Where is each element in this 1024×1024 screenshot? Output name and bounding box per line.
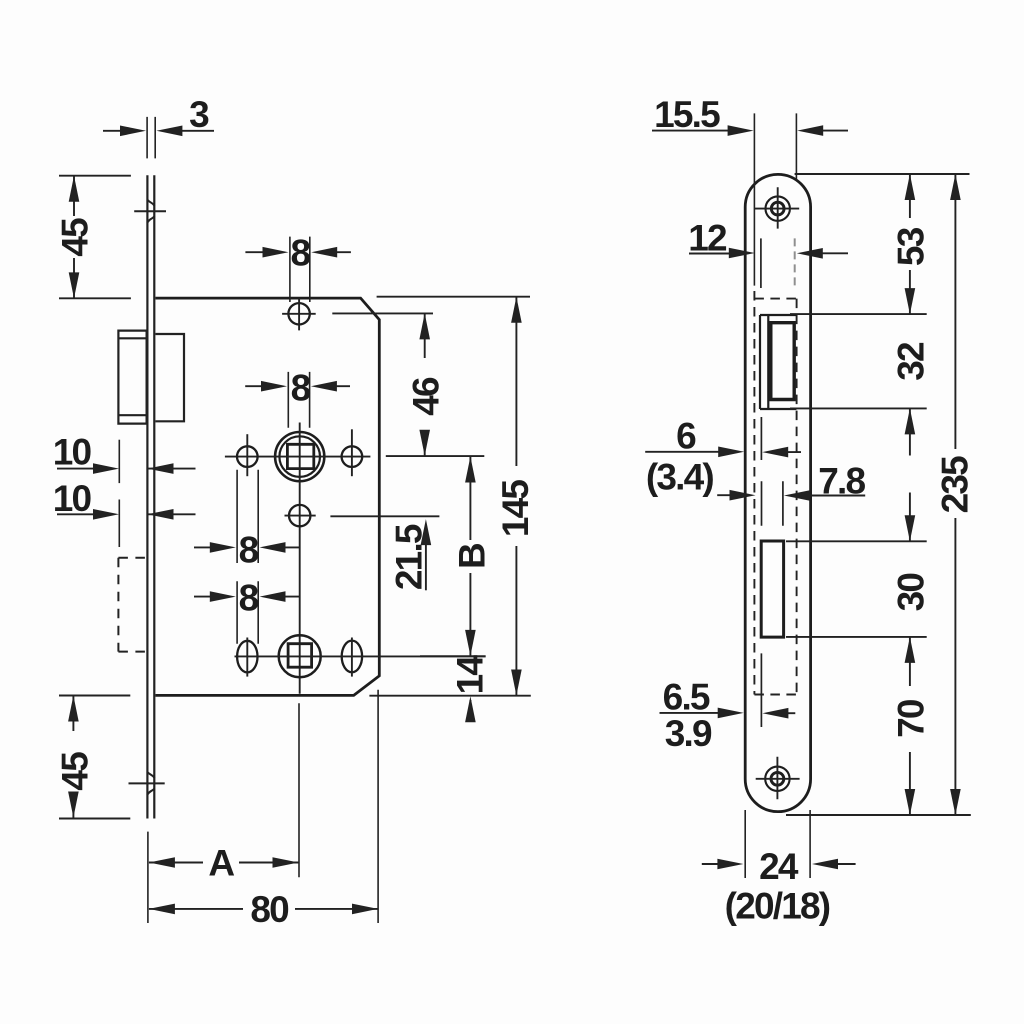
svg-text:3.9: 3.9 bbox=[665, 713, 712, 754]
dim 10 upper bbox=[53, 432, 196, 483]
hidden lock case (dashed) bbox=[754, 291, 796, 695]
dim 46 bbox=[332, 313, 484, 456]
faceplate (side view) bbox=[147, 175, 154, 818]
left hole bbox=[237, 434, 258, 476]
svg-text:6: 6 bbox=[676, 416, 696, 457]
faceplate break mark bottom bbox=[129, 772, 165, 795]
dim 24 bbox=[702, 810, 856, 887]
dim 70 bbox=[891, 637, 932, 815]
dim 53 bbox=[891, 174, 932, 314]
construction lines bbox=[754, 113, 796, 727]
svg-text:15.5: 15.5 bbox=[654, 94, 720, 135]
svg-text:3: 3 bbox=[189, 94, 209, 135]
dim 145 bbox=[369, 297, 536, 696]
svg-text:80: 80 bbox=[250, 889, 289, 930]
svg-text:8: 8 bbox=[291, 233, 311, 274]
dim 30 label bbox=[891, 573, 932, 612]
top screw hole bbox=[755, 187, 799, 228]
dim A bbox=[148, 703, 299, 923]
dim 15.5 bbox=[652, 94, 848, 136]
svg-text:(3.4): (3.4) bbox=[646, 457, 714, 498]
latch bolt body bbox=[156, 334, 185, 421]
svg-text:6.5: 6.5 bbox=[663, 677, 710, 718]
svg-text:10: 10 bbox=[53, 478, 92, 519]
lock case outline bbox=[156, 298, 380, 695]
svg-text:70: 70 bbox=[891, 699, 932, 738]
bottom screw hole bbox=[756, 757, 800, 799]
lower small hole bbox=[285, 505, 316, 526]
deadbolt slot bbox=[761, 541, 783, 637]
svg-text:46: 46 bbox=[406, 377, 447, 416]
dim 8 left hole bbox=[194, 470, 300, 571]
dim 6 (3.4) bbox=[645, 416, 801, 498]
dim 7.8 bbox=[717, 460, 865, 501]
dim 8 top hole bbox=[245, 233, 351, 303]
svg-text:53: 53 bbox=[891, 227, 932, 266]
dim 14 bbox=[449, 655, 490, 723]
svg-text:24: 24 bbox=[759, 846, 799, 887]
dim 8 spindle bbox=[245, 367, 350, 427]
svg-text:32: 32 bbox=[891, 342, 932, 381]
dim 6.5 / 3.9 bbox=[660, 677, 796, 754]
dim 32 label bbox=[891, 342, 932, 381]
latch cutout bbox=[760, 315, 796, 409]
deadbolt (dashed) bbox=[118, 558, 146, 652]
dim 3 (faceplate thickness) bbox=[103, 94, 214, 158]
svg-text:12: 12 bbox=[688, 217, 727, 258]
faceplate break mark top bbox=[134, 200, 166, 223]
spindle hub bbox=[275, 432, 324, 481]
svg-text:8: 8 bbox=[239, 530, 259, 571]
bottom holes centerline bbox=[235, 655, 486, 657]
svg-text:45: 45 bbox=[55, 752, 96, 791]
strike plate outline bbox=[745, 174, 810, 811]
svg-text:8: 8 bbox=[291, 367, 311, 408]
left oval hole bbox=[237, 638, 257, 677]
svg-text:7.8: 7.8 bbox=[818, 460, 865, 501]
top hole bbox=[282, 298, 316, 330]
extension lines right bbox=[786, 174, 971, 815]
dim B bbox=[420, 457, 492, 657]
svg-text:14: 14 bbox=[449, 655, 490, 695]
dim 12 bbox=[688, 217, 848, 258]
dim 45 top bbox=[55, 176, 131, 299]
svg-text:21.5: 21.5 bbox=[389, 524, 430, 590]
right hole bbox=[342, 429, 363, 476]
svg-text:235: 235 bbox=[934, 456, 975, 514]
right oval hole bbox=[342, 638, 362, 677]
dim 45 bottom bbox=[55, 696, 131, 819]
bottom spindle hole bbox=[279, 635, 321, 677]
svg-text:145: 145 bbox=[495, 480, 536, 538]
svg-text:10: 10 bbox=[53, 432, 92, 473]
dim 8 oval bbox=[194, 577, 300, 643]
svg-text:8: 8 bbox=[239, 577, 259, 618]
dim 80 bbox=[149, 690, 378, 930]
chain arrows mid bbox=[905, 408, 916, 541]
svg-text:(20/18): (20/18) bbox=[725, 886, 830, 927]
svg-text:B: B bbox=[451, 543, 492, 569]
dim 10 lower bbox=[53, 478, 196, 547]
label (20/18) bbox=[725, 886, 830, 927]
latch bolt head bbox=[118, 331, 146, 424]
dim 235 bbox=[934, 174, 975, 815]
svg-text:30: 30 bbox=[891, 573, 932, 612]
svg-text:45: 45 bbox=[55, 218, 96, 257]
dim 21.5 bbox=[330, 516, 439, 590]
svg-text:A: A bbox=[208, 842, 234, 883]
spindle centerlines bbox=[225, 423, 371, 694]
